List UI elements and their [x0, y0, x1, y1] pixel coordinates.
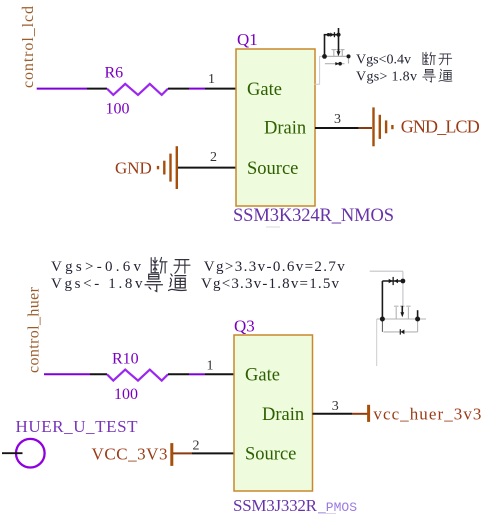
svg-text:Drain: Drain [262, 405, 304, 425]
svg-text:Drain: Drain [264, 119, 306, 139]
wire pin2 of R10 [168, 373, 189, 375]
svg-text:Vgs<0.4v: Vgs<0.4v [356, 53, 411, 68]
pin 3 of Q1 [315, 127, 359, 129]
hanzi dao tong (top line 2) [423, 69, 436, 82]
pin 3 of Q3 [313, 413, 353, 415]
svg-text:VCC_3V3: VCC_3V3 [92, 444, 168, 463]
VCC_3V3 bar [170, 443, 173, 466]
stub wire into circle [2, 452, 23, 454]
svg-text:Gate: Gate [245, 366, 280, 386]
pin 1 of Q3 [205, 373, 234, 375]
svg-text:R10: R10 [112, 351, 139, 368]
svg-text:1: 1 [207, 359, 214, 374]
faint selection tick under NMOS label [266, 226, 280, 228]
annotation icon NMOS (small) [315, 28, 351, 84]
transistor Q1 body [236, 49, 315, 206]
svg-text:Vg>3.3v-0.6v=2.7v: Vg>3.3v-0.6v=2.7v [204, 259, 345, 275]
wire GND to Q1 source [178, 167, 236, 169]
svg-text:control_huer: control_huer [26, 286, 43, 373]
wire control_huer to R10 [44, 373, 90, 375]
resistor R6 [107, 84, 168, 95]
svg-text:100: 100 [114, 386, 138, 403]
svg-text:vcc_huer_3v3: vcc_huer_3v3 [373, 405, 481, 424]
ground symbol GND [158, 146, 177, 189]
power ground GND_LCD bars [374, 107, 393, 146]
svg-text:100: 100 [106, 101, 130, 118]
wire pin1 of R6 [87, 88, 107, 90]
pin 1 of Q1 [205, 88, 236, 90]
wire drain to vcc_huer_3v3 [352, 413, 368, 415]
left drop to body diode [381, 319, 383, 332]
wire pin1 of R10 [90, 373, 107, 375]
svg-text:3: 3 [332, 399, 339, 414]
svg-text:GND: GND [115, 159, 152, 178]
wire VCC_3V3 to Q3 source [173, 452, 192, 454]
leader line [376, 319, 378, 366]
svg-text:SSM3K324R_NMOS: SSM3K324R_NMOS [233, 206, 394, 226]
wire R10 to Q3 gate [189, 373, 205, 375]
hanzi dao tong (middle line 2) [145, 274, 162, 291]
svg-text:GND_LCD: GND_LCD [401, 117, 480, 137]
svg-text:Gate: Gate [247, 80, 282, 100]
svg-text:3: 3 [334, 112, 341, 127]
svg-text:Vg<3.3v-1.8v=1.5v: Vg<3.3v-1.8v=1.5v [201, 276, 340, 292]
annotation icon PMOS (small) [370, 271, 426, 366]
svg-text:HUER_U_TEST: HUER_U_TEST [16, 417, 139, 436]
resistor R10 [107, 370, 168, 381]
svg-text:1: 1 [208, 72, 215, 87]
transistor Q3 body [234, 335, 313, 491]
svg-text:Vgs<- 1.8v: Vgs<- 1.8v [51, 276, 143, 292]
svg-text:Vgs>-0.6v: Vgs>-0.6v [51, 259, 142, 275]
hanzi duan kai (middle line 1) [151, 257, 167, 273]
wire drain to GND_LCD [359, 127, 372, 129]
svg-text:Vgs> 1.8v: Vgs> 1.8v [356, 70, 417, 85]
no-connect circle [16, 439, 45, 468]
svg-text:Source: Source [245, 445, 296, 465]
svg-text:R6: R6 [105, 65, 124, 82]
wire R6 to Q1 gate [189, 88, 205, 90]
svg-text:_PMOS: _PMOS [317, 500, 357, 515]
svg-text:SSM3J332R: SSM3J332R [233, 496, 318, 515]
wire control_lcd to R6 [37, 88, 87, 90]
wire pin2 of R6 [168, 88, 189, 90]
hanzi duan kai (top line 1) [423, 52, 436, 64]
svg-text:2: 2 [210, 150, 217, 165]
svg-text:Q1: Q1 [237, 30, 258, 49]
svg-text:Source: Source [247, 159, 298, 179]
svg-text:Q3: Q3 [234, 317, 255, 336]
faint selection tick under PMOS label [318, 513, 336, 515]
svg-text:2: 2 [193, 439, 200, 454]
power bar vcc_huer_3v3 [367, 405, 370, 422]
leader line [315, 56, 325, 84]
svg-text:control_lcd: control_lcd [20, 6, 37, 88]
